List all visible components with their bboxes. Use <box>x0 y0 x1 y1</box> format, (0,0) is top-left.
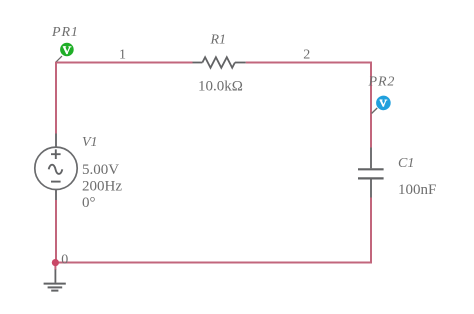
V1 minus sign <box>51 181 61 183</box>
svg-text:1: 1 <box>119 48 126 63</box>
probe PR2 V letter <box>380 100 387 106</box>
probe PR1 pointer <box>56 56 62 62</box>
svg-text:PR1: PR1 <box>51 25 79 40</box>
node 0 junction dot <box>52 259 59 266</box>
probe PR1 V letter <box>63 47 71 53</box>
resistor R1 right lead <box>235 62 246 64</box>
probe PR2 circle <box>376 96 391 111</box>
V1 sine symbol <box>49 165 63 174</box>
svg-text:5.00V: 5.00V <box>82 162 119 178</box>
wire: stub below junction to ground lead <box>54 263 56 271</box>
wire: right vertical lower segment (C1 bottom lead to bottom wire) <box>370 198 372 263</box>
svg-text:V1: V1 <box>82 135 98 150</box>
wire: left vertical lower segment (V1 bottom to node 0 junction) <box>55 200 57 263</box>
wire: bottom horizontal (node 0) <box>56 262 372 264</box>
ground bar 3 <box>51 290 58 292</box>
svg-text:0°: 0° <box>82 195 96 211</box>
svg-text:2: 2 <box>303 48 310 63</box>
wire: left vertical upper segment (node 1 corner to V1 top) <box>55 63 57 134</box>
svg-text:0: 0 <box>61 252 68 267</box>
V1 plus sign <box>51 149 61 159</box>
voltage source V1 leads <box>55 134 57 201</box>
probe PR2 pointer <box>372 108 378 114</box>
ground lead <box>54 270 56 283</box>
resistor R1 left lead <box>193 62 203 64</box>
capacitor C1 top plate <box>358 168 384 170</box>
svg-text:100nF: 100nF <box>398 182 436 198</box>
ground bar 2 <box>48 286 63 288</box>
svg-text:C1: C1 <box>398 156 414 171</box>
svg-text:R1: R1 <box>210 33 227 48</box>
ground bar 1 <box>44 283 66 285</box>
wire: top horizontal right segment (R1 right lead to top-right corner) <box>246 62 372 64</box>
svg-text:200Hz: 200Hz <box>82 178 122 194</box>
svg-text:10.0kΩ: 10.0kΩ <box>198 79 243 95</box>
capacitor C1 top lead <box>370 148 372 169</box>
voltage source V1 body <box>35 147 77 189</box>
capacitor C1 bottom plate <box>358 177 384 179</box>
resistor R1 zigzag body <box>202 57 235 68</box>
wire: right vertical upper segment (corner to C1 top lead) <box>370 63 372 148</box>
svg-text:PR2: PR2 <box>368 74 396 89</box>
wire: top horizontal left segment (corner to R1 left lead) <box>55 62 193 64</box>
capacitor C1 bottom lead <box>370 179 372 197</box>
probe PR1 circle <box>60 43 74 57</box>
